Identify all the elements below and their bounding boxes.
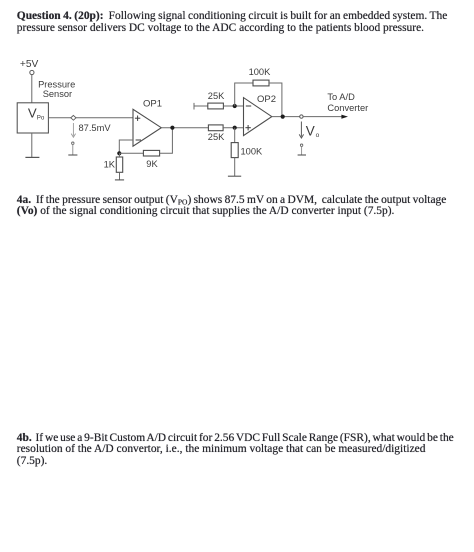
svg-text:V: V (306, 123, 315, 138)
OP1 plus sign (135, 116, 140, 121)
wire feedback up (235, 83, 253, 106)
svg-text:87.5mV: 87.5mV (79, 123, 112, 133)
svg-text:V: V (28, 106, 37, 121)
svg-text:Sensor: Sensor (43, 89, 72, 99)
resistor 100K feedback (253, 80, 269, 86)
svg-text:Converter: Converter (327, 103, 368, 113)
svg-text:+5V: +5V (20, 59, 39, 70)
wire 25K lower to OP2 + input (223, 127, 243, 129)
svg-text:25K: 25K (208, 91, 225, 101)
wire tick to 25K upper (194, 105, 208, 107)
svg-text:1K: 1K (104, 159, 116, 169)
svg-text:9K: 9K (146, 159, 158, 169)
OP2 minus sign (246, 105, 251, 107)
reference ground bar (68, 154, 77, 156)
ground under sensor (25, 156, 39, 158)
+5V terminal circle (30, 70, 34, 74)
Vo measurement arrow (299, 122, 303, 139)
wire OP1 output (161, 127, 208, 129)
resistor 25K upper (208, 103, 224, 109)
measurement arrow 87.5mV (71, 123, 75, 137)
svg-text:OP1: OP1 (143, 99, 162, 110)
resistor 25K lower (208, 125, 223, 131)
svg-text:Po: Po (37, 114, 45, 121)
reference circle under arrow (72, 142, 74, 144)
pressure sensor box (17, 103, 48, 133)
op-amp OP2 (244, 98, 272, 136)
svg-text:o: o (316, 132, 320, 139)
node OP2 output junction (281, 115, 285, 119)
question 4 paragraph (17, 11, 448, 34)
output terminal circle (300, 115, 303, 118)
Vo reference ground lead (301, 147, 303, 155)
svg-text:100K: 100K (249, 67, 272, 77)
question 4b paragraph (17, 433, 454, 468)
node diamond VPo (71, 115, 76, 120)
reference ground lead (72, 145, 74, 155)
ground under 1K (115, 179, 124, 181)
wire 100K shunt to ground (234, 158, 236, 176)
OP2 plus sign (245, 125, 250, 130)
wire 1K to ground (119, 172, 121, 180)
resistor 9K (143, 150, 159, 156)
wire sensor output to OP1 + input (49, 117, 134, 119)
wire OP2 output (272, 116, 300, 118)
input terminal tick (193, 103, 195, 110)
resistor 100K shunt (231, 143, 238, 158)
svg-text:To A/D: To A/D (327, 92, 355, 102)
node OP1 output junction (170, 126, 174, 130)
wire to A/D arrow (303, 116, 342, 118)
Vo reference circle (300, 144, 302, 146)
question 4a paragraph (17, 195, 447, 218)
OP1 minus sign (136, 139, 141, 141)
wire OP2 + node down (234, 128, 236, 143)
wire sensor box to ground (31, 133, 33, 157)
node OP2 noninverting junction (233, 126, 237, 130)
wire 9K to OP1 output (160, 128, 173, 154)
svg-text:OP2: OP2 (257, 94, 276, 105)
wire feedback down to output (269, 83, 282, 117)
wire +5V to sensor box (31, 75, 33, 103)
wire node A to 1K (119, 153, 121, 157)
A/D arrowhead (341, 115, 348, 119)
op-amp OP1 (133, 109, 161, 146)
node A junction (117, 151, 121, 155)
wire 25K upper to OP2 - input (223, 105, 243, 107)
resistor 1K (116, 157, 122, 172)
node OP2 inverting junction (233, 104, 237, 108)
ground under 100K (228, 175, 241, 177)
Vo reference ground bar (298, 154, 306, 156)
svg-text:100K: 100K (241, 147, 264, 157)
svg-text:25K: 25K (208, 132, 225, 142)
wire OP1 inverting input (119, 140, 133, 153)
wire node A to 9K (119, 152, 143, 154)
